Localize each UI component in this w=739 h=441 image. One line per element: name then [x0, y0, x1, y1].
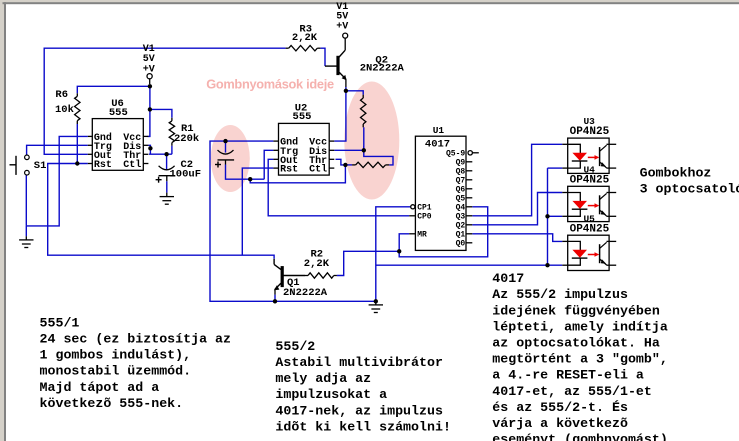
svg-text:Gombnyomások ideje: Gombnyomások ideje [206, 76, 334, 91]
svg-text:555/2: 555/2 [275, 339, 315, 354]
svg-text:Rst: Rst [94, 160, 112, 171]
svg-text:Rst: Rst [280, 165, 298, 176]
svg-text:555: 555 [109, 107, 128, 119]
svg-text:Q2: Q2 [456, 222, 466, 231]
svg-text:OP4N25: OP4N25 [570, 126, 610, 138]
svg-text:Ctl: Ctl [309, 164, 327, 176]
svg-text:Q3: Q3 [456, 213, 466, 222]
svg-text:és az 555/2-t. És: és az 555/2-t. És [492, 400, 628, 415]
svg-text:Q6: Q6 [456, 186, 466, 195]
svg-text:100uF: 100uF [170, 168, 202, 180]
svg-text:S1: S1 [34, 160, 47, 172]
svg-text:következõ 555-nek.: következõ 555-nek. [40, 396, 184, 411]
svg-text:4017-nek, az impulzus: 4017-nek, az impulzus [275, 403, 443, 418]
svg-text:MR: MR [417, 231, 427, 240]
svg-text:+V: +V [336, 21, 348, 32]
svg-text:Majd tápot ad a: Majd tápot ad a [40, 380, 160, 395]
svg-text:Q5-9: Q5-9 [446, 150, 465, 159]
svg-text:555/1: 555/1 [40, 315, 80, 330]
svg-text:220k: 220k [174, 133, 199, 145]
svg-text:Q9: Q9 [456, 159, 466, 168]
svg-text:várja a következõ: várja a következõ [492, 416, 628, 431]
svg-text:U1: U1 [433, 125, 445, 136]
svg-text:mely adja az: mely adja az [275, 371, 371, 386]
svg-text:megtörtént a 3 "gomb",: megtörtént a 3 "gomb", [492, 352, 668, 367]
svg-text:a 4.-re RESET-eli a: a 4.-re RESET-eli a [492, 368, 644, 383]
svg-text:4017: 4017 [425, 138, 450, 150]
svg-text:Astabil multivibrátor: Astabil multivibrátor [275, 355, 443, 370]
svg-text:555: 555 [293, 111, 312, 123]
svg-text:+V: +V [143, 64, 155, 75]
svg-text:24 sec (ez biztosítja az: 24 sec (ez biztosítja az [40, 332, 232, 347]
svg-text:2N2222A: 2N2222A [283, 287, 328, 299]
svg-text:idejének függvényében: idejének függvényében [492, 303, 660, 318]
svg-text:10k: 10k [55, 104, 74, 116]
svg-text:Q8: Q8 [456, 168, 466, 177]
svg-text:az optocsatolókat. Ha: az optocsatolókat. Ha [492, 336, 660, 351]
svg-text:Q0: Q0 [456, 240, 466, 249]
svg-text:4017: 4017 [492, 271, 524, 286]
svg-text:2N2222A: 2N2222A [360, 63, 405, 75]
svg-text:3 optocsatoló: 3 optocsatoló [640, 181, 739, 196]
svg-text:Q1: Q1 [456, 231, 466, 240]
svg-text:R6: R6 [55, 89, 68, 101]
svg-text:lépteti, amely indítja: lépteti, amely indítja [492, 319, 668, 334]
svg-text:5V: 5V [143, 54, 155, 65]
svg-text:Ctl: Ctl [123, 159, 141, 171]
svg-text:2,2K: 2,2K [292, 32, 318, 44]
svg-text:Q7: Q7 [456, 177, 466, 186]
svg-text:impulzusokat a: impulzusokat a [275, 387, 387, 402]
svg-text:CP0: CP0 [417, 213, 432, 222]
svg-text:eseményt (gombnyomást): eseményt (gombnyomást) [492, 432, 668, 441]
svg-text:Q5: Q5 [456, 195, 466, 204]
svg-text:OP4N25: OP4N25 [570, 174, 610, 186]
svg-text:Q4: Q4 [456, 204, 466, 213]
svg-text:1 gombos indulást),: 1 gombos indulást), [40, 348, 192, 363]
svg-text:monostabil üzemmód.: monostabil üzemmód. [40, 364, 192, 379]
svg-text:idõt ki kell számolni!: idõt ki kell számolni! [275, 419, 451, 434]
svg-text:Gombokhoz: Gombokhoz [640, 165, 712, 180]
svg-text:Az 555/2 impulzus: Az 555/2 impulzus [492, 287, 628, 302]
svg-text:CP1: CP1 [417, 204, 432, 213]
svg-text:OP4N25: OP4N25 [570, 223, 610, 235]
svg-text:2,2K: 2,2K [304, 258, 330, 270]
svg-text:4017-et, az 555/1-et: 4017-et, az 555/1-et [492, 384, 652, 399]
